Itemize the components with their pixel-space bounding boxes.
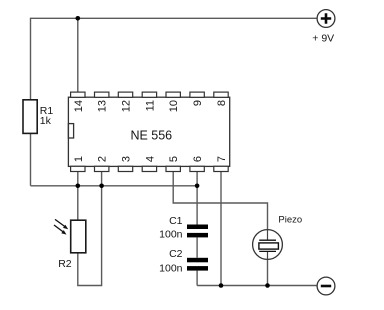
svg-text:C1: C1 <box>169 215 183 227</box>
svg-text:14: 14 <box>73 100 85 112</box>
svg-text:8: 8 <box>216 100 228 106</box>
svg-text:2: 2 <box>97 156 109 162</box>
svg-text:Piezo: Piezo <box>278 214 302 225</box>
svg-text:6: 6 <box>192 156 204 162</box>
svg-text:3: 3 <box>121 156 133 162</box>
svg-text:C2: C2 <box>169 248 183 260</box>
svg-text:11: 11 <box>144 100 156 111</box>
svg-text:4: 4 <box>144 156 156 162</box>
svg-text:1: 1 <box>73 156 85 162</box>
svg-text:7: 7 <box>216 156 228 162</box>
svg-text:1k: 1k <box>40 115 52 127</box>
svg-text:5: 5 <box>168 156 180 162</box>
svg-text:13: 13 <box>97 100 109 112</box>
svg-text:+ 9V: + 9V <box>312 33 334 45</box>
svg-text:10: 10 <box>168 100 180 112</box>
svg-text:100n: 100n <box>159 229 183 241</box>
svg-text:R2: R2 <box>58 258 72 270</box>
svg-text:100n: 100n <box>159 263 183 275</box>
svg-text:9: 9 <box>192 100 204 106</box>
svg-text:NE 556: NE 556 <box>130 129 172 143</box>
svg-text:12: 12 <box>121 100 133 112</box>
